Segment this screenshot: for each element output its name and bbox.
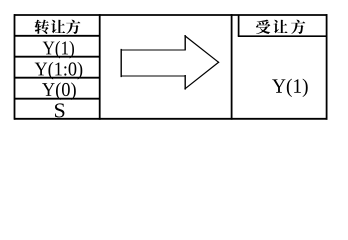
block arrow (transfer direction) bbox=[121, 36, 219, 89]
arrow shaft top edge bbox=[121, 49, 185, 51]
header char 让 (left) bbox=[51, 20, 65, 34]
left table row line 3 (below Y(1:0)) bbox=[14, 77, 100, 79]
transfer diagram: left signal table, block arrow, right receiver table bbox=[0, 0, 348, 134]
arrow head upper diagonal bbox=[185, 36, 219, 62]
arrow shaft bottom edge bbox=[121, 75, 185, 77]
header char 方 (left) bbox=[66, 20, 80, 34]
header char 让 (right) bbox=[273, 20, 287, 34]
header char 转 bbox=[35, 20, 49, 34]
right section left border bbox=[231, 14, 233, 120]
left table right border bbox=[99, 14, 101, 120]
right header bottom line bbox=[238, 35, 327, 37]
header char 受 bbox=[256, 20, 270, 34]
outer left border bbox=[14, 14, 16, 120]
cell text S bbox=[55, 103, 64, 117]
cell text Y(1) left bbox=[43, 41, 74, 59]
outer top border bbox=[14, 14, 328, 16]
left table row line 2 (below Y(1)) bbox=[14, 56, 100, 58]
arrow head base lower bbox=[184, 76, 186, 89]
cell text Y(0) bbox=[42, 82, 76, 100]
outer bottom border bbox=[14, 118, 328, 120]
right header left edge bbox=[238, 15, 240, 36]
arrow shaft left edge bbox=[120, 50, 122, 77]
cell text Y(1:0) bbox=[35, 62, 83, 80]
left table row line 1 (below header) bbox=[14, 35, 100, 37]
arrow head lower diagonal bbox=[185, 62, 219, 89]
arrow head base upper bbox=[184, 36, 186, 50]
outer right border bbox=[326, 14, 328, 120]
left table row line 4 (below Y(0)) bbox=[14, 98, 100, 100]
cell text Y(1) right bbox=[272, 79, 308, 97]
header char 方 (right) bbox=[291, 20, 305, 34]
